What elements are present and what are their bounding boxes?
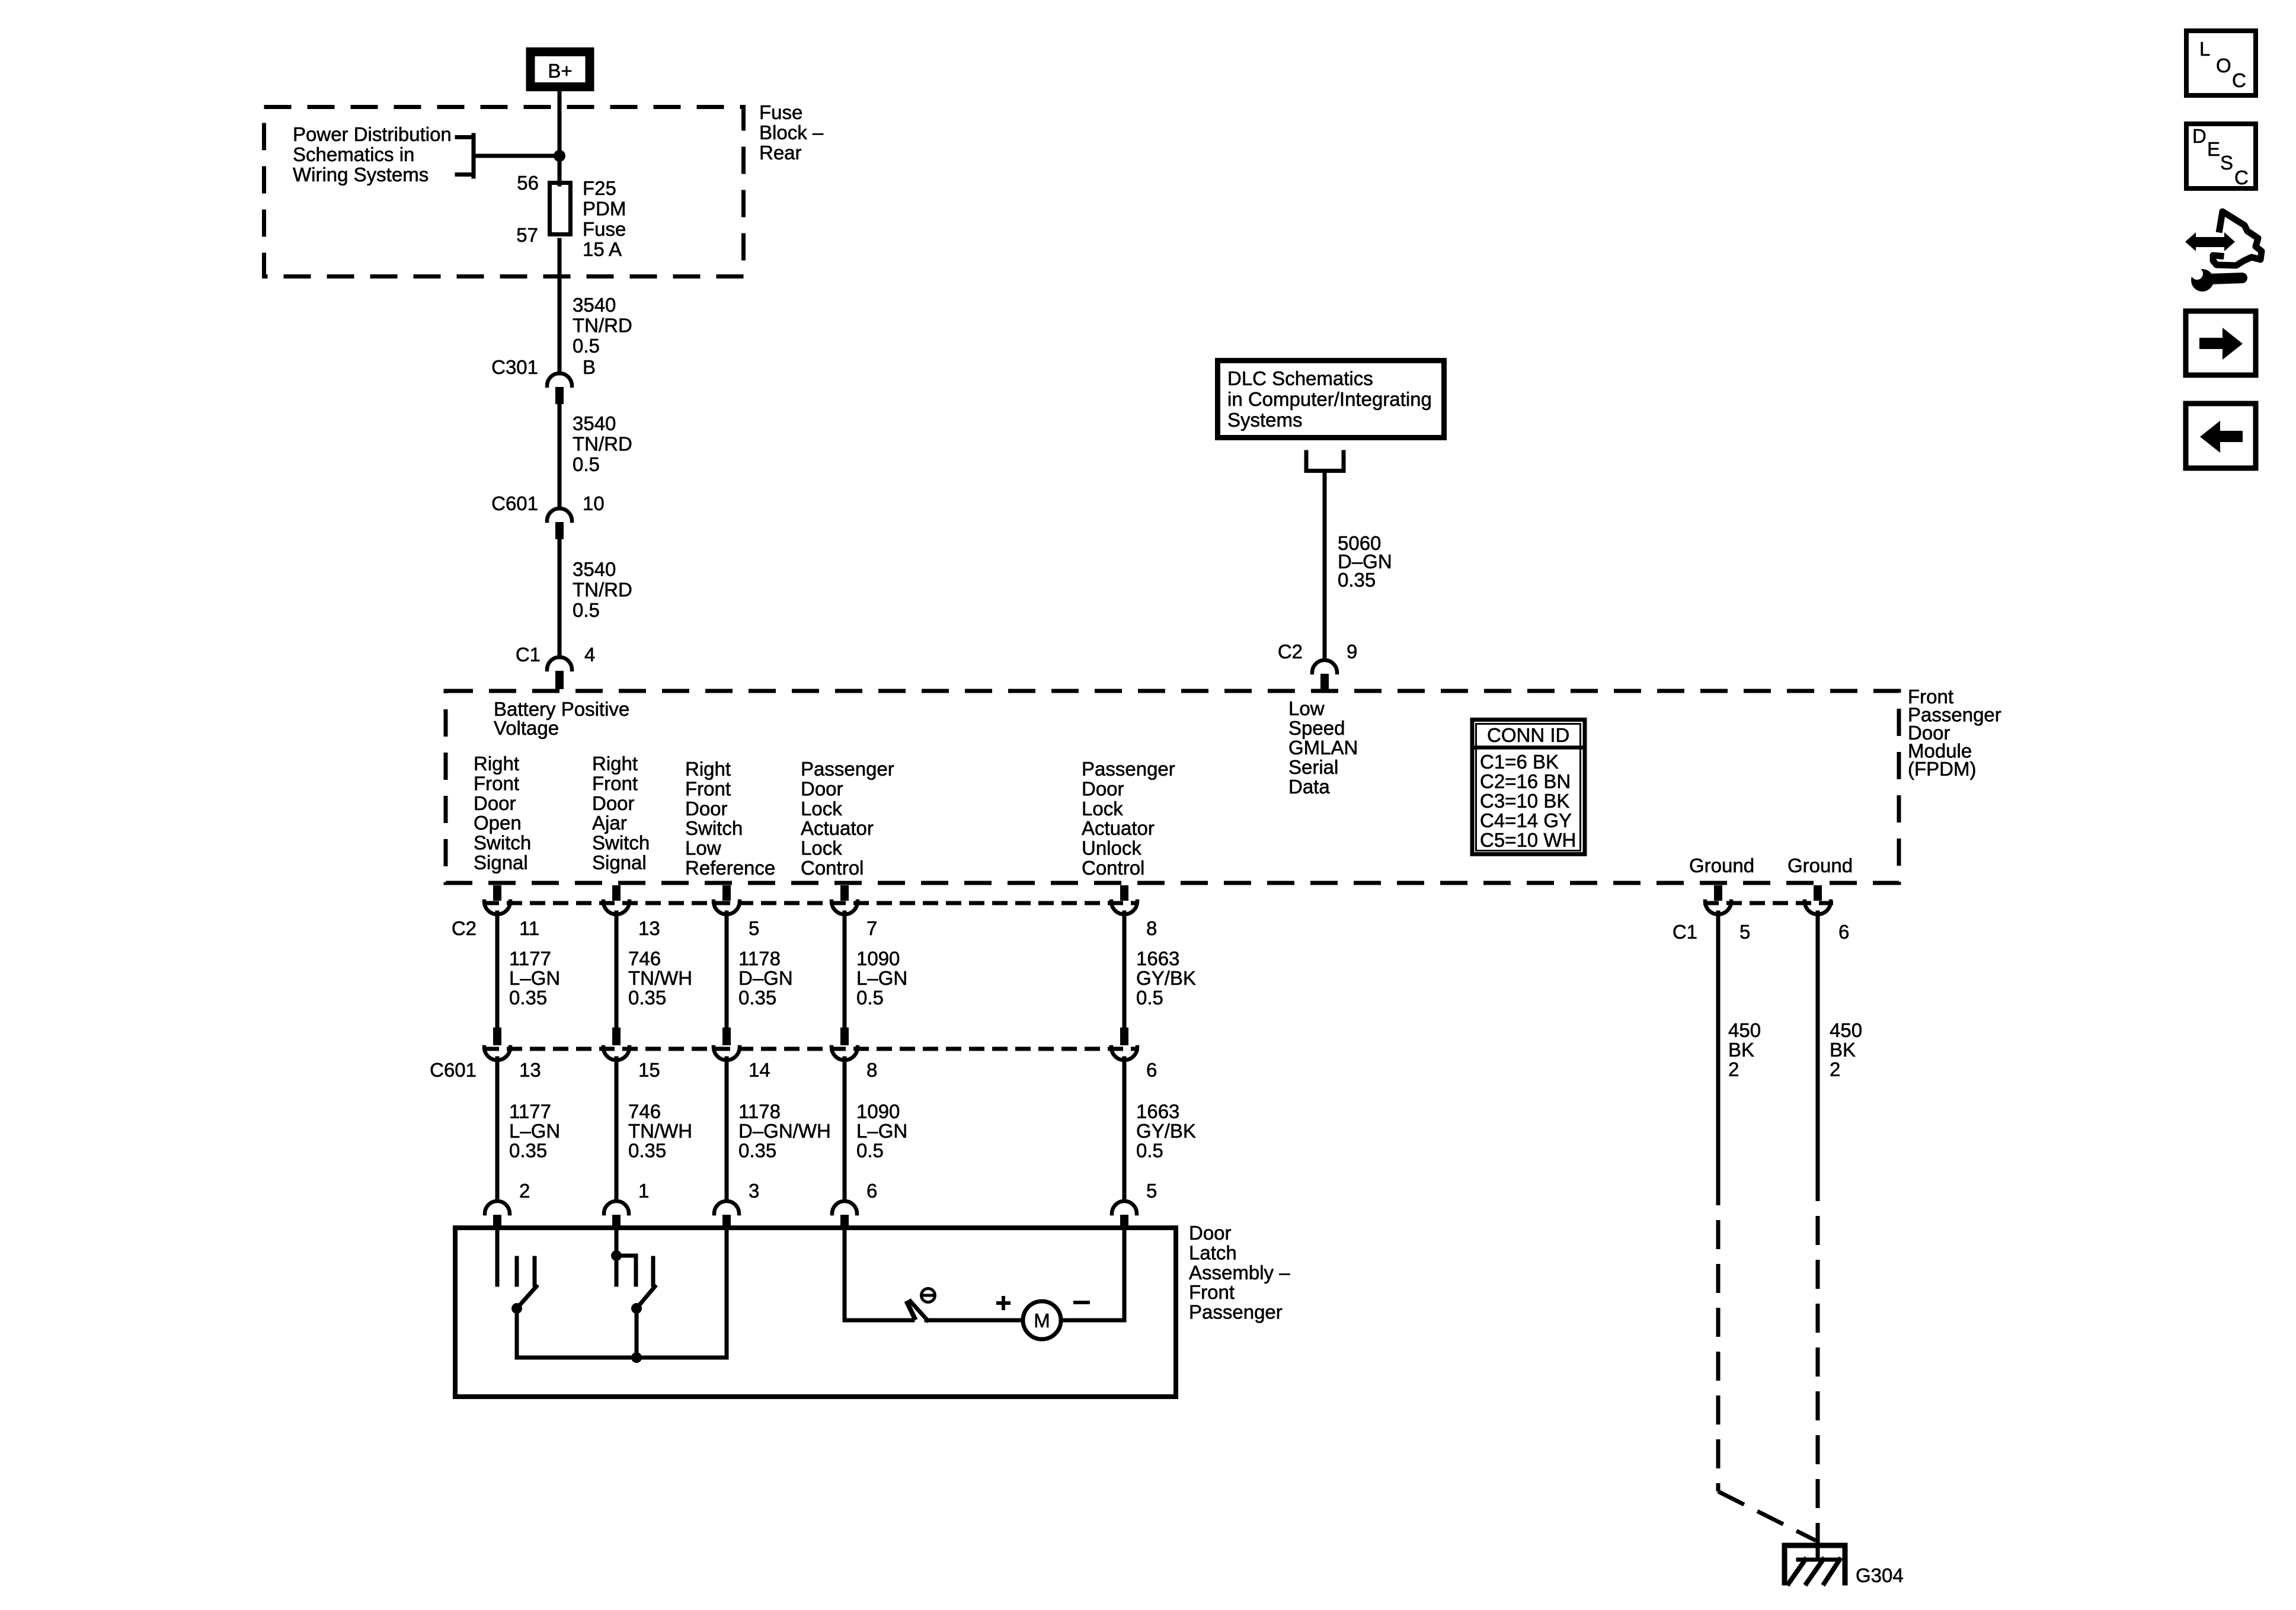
door latch connector pin 5 xyxy=(1112,1201,1137,1227)
wire C601 to C1 xyxy=(558,539,562,657)
svg-text:Control: Control xyxy=(1082,857,1144,879)
door ajar switch contact xyxy=(651,1258,655,1285)
svg-text:6: 6 xyxy=(1146,1059,1157,1081)
pin 56 label xyxy=(517,172,539,194)
svg-text:0.5: 0.5 xyxy=(573,335,600,357)
svg-text:E: E xyxy=(2207,138,2220,160)
svg-text:Door: Door xyxy=(1082,777,1124,799)
svg-text:2: 2 xyxy=(1830,1058,1840,1080)
svg-text:Passenger: Passenger xyxy=(801,758,894,780)
svg-text:5: 5 xyxy=(1739,921,1750,943)
svg-text:TN/WH: TN/WH xyxy=(628,1120,692,1142)
DLC schematics reference box xyxy=(1218,361,1444,438)
svg-text:56: 56 xyxy=(517,172,539,194)
CONN ID table xyxy=(1472,720,1585,854)
connector C601 pin 13 terminal xyxy=(484,1028,510,1060)
label Right Front Door Switch Low Reference xyxy=(685,758,775,879)
wire labels first harness segment xyxy=(509,948,1196,1009)
fuse block rear dashed box xyxy=(264,107,744,277)
svg-text:B+: B+ xyxy=(548,60,572,82)
svg-text:Door: Door xyxy=(1189,1222,1232,1244)
svg-text:746: 746 xyxy=(628,1100,661,1122)
svg-text:TN/RD: TN/RD xyxy=(573,433,632,455)
connector row C2 dotted line xyxy=(484,901,1139,905)
svg-text:D–GN/WH: D–GN/WH xyxy=(738,1120,831,1142)
connector C2 pin 9 into FPDM xyxy=(1312,660,1337,690)
pin 6 label C601 row xyxy=(1146,1059,1157,1081)
svg-text:Fuse: Fuse xyxy=(583,218,626,240)
svg-text:Front: Front xyxy=(474,772,519,794)
door ajar switch blade xyxy=(631,1286,655,1314)
ground wire pin6 to ground symbol xyxy=(1816,1532,1820,1560)
label C601 xyxy=(491,492,538,514)
label C601 row xyxy=(430,1059,477,1081)
connector C601 pin 14 terminal xyxy=(714,1028,740,1060)
svg-text:C: C xyxy=(2234,167,2249,188)
svg-text:Switch: Switch xyxy=(592,832,650,854)
svg-text:C5=10 WH: C5=10 WH xyxy=(1480,829,1576,851)
svg-text:3540: 3540 xyxy=(573,412,616,434)
ground row dotted line xyxy=(1703,901,1833,905)
svg-text:15 A: 15 A xyxy=(583,238,622,260)
svg-text:9: 9 xyxy=(1347,641,1357,662)
svg-text:6: 6 xyxy=(866,1180,877,1202)
svg-text:4: 4 xyxy=(584,644,595,665)
svg-text:TN/RD: TN/RD xyxy=(573,315,632,337)
power distribution reference bracket xyxy=(457,135,474,177)
svg-text:0.5: 0.5 xyxy=(573,453,600,475)
actuator switch blade xyxy=(910,1301,928,1320)
svg-text:C301: C301 xyxy=(491,356,538,378)
connector row C601 dotted line xyxy=(484,1047,1139,1051)
pin 9 label xyxy=(1347,641,1357,662)
label C1 row xyxy=(1673,921,1697,943)
svg-text:1663: 1663 xyxy=(1136,948,1179,969)
svg-text:TN/WH: TN/WH xyxy=(628,967,692,989)
svg-text:Voltage: Voltage xyxy=(494,717,559,739)
svg-text:CONN ID: CONN ID xyxy=(1487,724,1569,746)
svg-text:0.35: 0.35 xyxy=(738,1140,776,1161)
svg-text:C1: C1 xyxy=(1673,921,1697,943)
svg-text:Door: Door xyxy=(801,777,843,799)
plus polarity label xyxy=(998,1298,1009,1308)
svg-text:0.35: 0.35 xyxy=(628,1140,666,1161)
svg-text:0.5: 0.5 xyxy=(856,1140,884,1161)
label C301 xyxy=(491,356,538,378)
ground wire pin5 solid xyxy=(1716,913,1721,1176)
door open switch contacts xyxy=(517,1258,535,1285)
svg-text:Right: Right xyxy=(474,753,519,774)
junction node on B+ feed xyxy=(554,150,565,162)
connector C601 pin 10 xyxy=(547,508,572,539)
connector C301 pin B xyxy=(547,373,572,404)
DLC bracket xyxy=(1306,452,1344,471)
actuator switch contact tick xyxy=(907,1303,914,1318)
svg-text:Speed: Speed xyxy=(1288,717,1345,739)
wires C601 row to door latch xyxy=(497,1058,1124,1201)
door latch connector pin 2 xyxy=(485,1201,510,1227)
svg-text:1: 1 xyxy=(638,1180,649,1202)
door latch assembly box xyxy=(455,1228,1176,1397)
svg-text:BK: BK xyxy=(1728,1039,1754,1061)
svg-text:3: 3 xyxy=(749,1180,759,1202)
low reference wire in latch xyxy=(725,1225,729,1358)
svg-text:Switch: Switch xyxy=(685,817,743,839)
label C1 xyxy=(516,644,541,665)
svg-text:Right: Right xyxy=(685,758,731,780)
fuse F25 PDM 15A xyxy=(550,183,571,235)
label C2 xyxy=(1278,641,1303,662)
circled minus symbol xyxy=(922,1289,935,1302)
ground wire pin5 dashed xyxy=(1716,1176,1721,1491)
svg-text:5: 5 xyxy=(1146,1180,1157,1202)
svg-text:D–GN: D–GN xyxy=(738,967,793,989)
svg-text:Signal: Signal xyxy=(474,852,528,873)
label Ground pin6 xyxy=(1787,854,1853,876)
svg-text:Lock: Lock xyxy=(801,798,842,820)
motor M lock actuator xyxy=(1023,1301,1061,1339)
svg-text:13: 13 xyxy=(638,917,660,939)
back arrow icon xyxy=(2186,404,2256,468)
svg-text:13: 13 xyxy=(519,1059,541,1081)
svg-text:Reference: Reference xyxy=(685,857,775,879)
connector C2 pin 7 terminal xyxy=(832,885,858,914)
connector C601 pin 8 terminal xyxy=(832,1028,858,1060)
pin 1 label door latch xyxy=(638,1180,649,1202)
svg-text:Door: Door xyxy=(474,792,516,814)
pin 57 label xyxy=(516,224,538,246)
front passenger door module FPDM dashed box xyxy=(446,691,1899,883)
svg-text:1177: 1177 xyxy=(509,948,551,969)
pin 3 label door latch xyxy=(749,1180,759,1202)
svg-text:Control: Control xyxy=(801,857,864,879)
svg-text:0.5: 0.5 xyxy=(573,599,600,621)
svg-text:S: S xyxy=(2220,152,2233,174)
door open switch output wire xyxy=(515,1308,519,1358)
svg-text:L–GN: L–GN xyxy=(856,1120,907,1142)
svg-text:0.35: 0.35 xyxy=(1338,569,1376,591)
svg-text:1177: 1177 xyxy=(509,1100,551,1122)
svg-text:Ajar: Ajar xyxy=(592,812,627,834)
svg-text:2: 2 xyxy=(519,1180,530,1202)
svg-text:DLC Schematics: DLC Schematics xyxy=(1227,367,1373,389)
svg-text:Low: Low xyxy=(1288,697,1325,719)
svg-text:Data: Data xyxy=(1288,776,1330,798)
svg-text:L–GN: L–GN xyxy=(856,967,907,989)
svg-text:8: 8 xyxy=(1146,917,1157,939)
pin 6 label ground xyxy=(1838,921,1849,943)
pin 5 label ground xyxy=(1739,921,1750,943)
door ajar switch input wire xyxy=(611,1225,622,1261)
door latch connector pin 1 xyxy=(604,1201,629,1227)
svg-text:1090: 1090 xyxy=(856,948,900,969)
pin 5 label door latch xyxy=(1146,1180,1157,1202)
svg-text:0.5: 0.5 xyxy=(1136,987,1163,1009)
svg-text:L–GN: L–GN xyxy=(509,1120,560,1142)
pin 10 label xyxy=(583,492,605,514)
svg-text:15: 15 xyxy=(638,1059,660,1081)
svg-text:Actuator: Actuator xyxy=(801,817,874,839)
svg-text:Front: Front xyxy=(685,777,731,799)
svg-text:C4=14 GY: C4=14 GY xyxy=(1480,809,1572,831)
svg-text:GY/BK: GY/BK xyxy=(1136,967,1196,989)
svg-text:Lock: Lock xyxy=(1082,798,1123,820)
pin 2 label door latch xyxy=(519,1180,530,1202)
wire B+ to fuse F25 xyxy=(558,91,562,184)
label Fuse Block - Rear xyxy=(759,101,824,164)
door ajar switch output wire xyxy=(635,1308,639,1358)
svg-text:C1=6 BK: C1=6 BK xyxy=(1480,751,1559,773)
connector C2 pin 5 terminal xyxy=(714,885,740,914)
svg-text:450: 450 xyxy=(1728,1019,1761,1041)
pin 8 label C601 row xyxy=(866,1059,877,1081)
wire switch to motor xyxy=(926,1318,1023,1323)
svg-text:Wiring Systems: Wiring Systems xyxy=(293,164,428,185)
svg-text:7: 7 xyxy=(866,917,877,939)
label G304 xyxy=(1856,1564,1904,1586)
svg-text:1178: 1178 xyxy=(738,948,781,969)
svg-text:C3=10 BK: C3=10 BK xyxy=(1480,790,1569,812)
pin 4 label xyxy=(584,644,595,665)
wire label 3540 TN/RD 0.5 second xyxy=(573,412,632,475)
svg-text:10: 10 xyxy=(583,492,605,514)
svg-text:C601: C601 xyxy=(430,1059,477,1081)
svg-text:1663: 1663 xyxy=(1136,1100,1179,1122)
wire label 450 BK 2 right xyxy=(1830,1019,1862,1080)
pin 5 label xyxy=(749,917,759,939)
svg-text:Low: Low xyxy=(685,837,721,859)
svg-text:in Computer/Integrating: in Computer/Integrating xyxy=(1227,388,1432,410)
svg-text:GMLAN: GMLAN xyxy=(1288,737,1358,758)
svg-text:Actuator: Actuator xyxy=(1082,817,1155,839)
connector C1 pin 6 terminal xyxy=(1805,885,1831,914)
pin B label xyxy=(583,356,596,378)
svg-text:3540: 3540 xyxy=(573,558,616,580)
wire label 450 BK 2 left xyxy=(1728,1019,1761,1080)
pin 14 label C601 row xyxy=(749,1059,770,1081)
svg-text:6: 6 xyxy=(1838,921,1849,943)
svg-text:Front: Front xyxy=(1189,1281,1235,1303)
svg-text:C2=16 BN: C2=16 BN xyxy=(1480,770,1571,792)
svg-text:C1: C1 xyxy=(516,644,541,665)
wires C2 row to C601 row xyxy=(497,913,1124,1029)
svg-text:F25: F25 xyxy=(583,177,616,199)
svg-text:Block –: Block – xyxy=(759,121,824,143)
door latch connector pin 3 xyxy=(714,1201,739,1227)
pin 8 label xyxy=(1146,917,1157,939)
DESC icon box xyxy=(2186,124,2256,188)
B+ battery positive voltage symbol xyxy=(530,52,590,87)
connector C2 pin 13 terminal xyxy=(603,885,629,914)
label Ground pin5 xyxy=(1689,854,1754,876)
connector C1 pin 4 into FPDM xyxy=(547,657,572,689)
svg-text:Schematics in: Schematics in xyxy=(293,143,414,165)
svg-text:0.35: 0.35 xyxy=(738,987,776,1009)
svg-text:C2: C2 xyxy=(452,917,477,939)
label C2 row xyxy=(452,917,477,939)
svg-text:TN/RD: TN/RD xyxy=(573,579,632,601)
svg-text:Passenger: Passenger xyxy=(1082,758,1175,780)
wire C301 to C601 xyxy=(558,404,562,508)
pin 13 label xyxy=(638,917,660,939)
svg-text:Open: Open xyxy=(474,812,522,834)
diagnostic car wrench icon xyxy=(2185,212,2262,292)
connector C1 pin 5 terminal xyxy=(1705,885,1731,914)
svg-text:Fuse: Fuse xyxy=(759,101,802,123)
svg-text:B: B xyxy=(583,356,596,378)
svg-text:Power Distribution: Power Distribution xyxy=(293,123,452,145)
pin 11 label xyxy=(519,917,539,939)
label F25 PDM Fuse 15 A xyxy=(583,177,626,260)
svg-text:Lock: Lock xyxy=(801,837,842,859)
LOC icon box xyxy=(2186,31,2256,95)
svg-text:GY/BK: GY/BK xyxy=(1136,1120,1196,1142)
wire label 3540 TN/RD 0.5 third xyxy=(573,558,632,621)
wire fuse to connector C301 xyxy=(558,240,562,373)
label Passenger Door Lock Actuator Unlock Control xyxy=(1082,758,1175,879)
pin 15 label C601 row xyxy=(638,1059,660,1081)
svg-text:Assembly –: Assembly – xyxy=(1189,1262,1290,1283)
label Door Latch Assembly Front Passenger xyxy=(1189,1222,1290,1323)
label Right Front Door Open Switch Signal xyxy=(474,753,531,873)
ground wire pin6 solid xyxy=(1816,913,1820,1172)
svg-text:1178: 1178 xyxy=(738,1100,781,1122)
svg-text:3540: 3540 xyxy=(573,294,616,316)
svg-text:D: D xyxy=(2192,125,2207,147)
unlock control wire in latch xyxy=(1123,1225,1127,1320)
svg-text:Front: Front xyxy=(592,772,638,794)
svg-text:Systems: Systems xyxy=(1227,409,1303,431)
connector C601 pin 15 terminal xyxy=(603,1028,629,1060)
svg-text:L–GN: L–GN xyxy=(509,967,560,989)
svg-text:Ground: Ground xyxy=(1689,854,1754,876)
svg-text:Door: Door xyxy=(685,798,728,820)
label Power Distribution Schematics in Wiring Systems xyxy=(293,123,452,185)
pin 7 label xyxy=(866,917,877,939)
lock actuator feed wire xyxy=(845,1225,913,1320)
svg-text:C: C xyxy=(2232,69,2246,91)
svg-text:8: 8 xyxy=(866,1059,877,1081)
svg-text:57: 57 xyxy=(516,224,538,246)
label Passenger Door Lock Actuator Lock Control xyxy=(801,758,894,879)
svg-text:450: 450 xyxy=(1830,1019,1862,1041)
label Low Speed GMLAN Serial Data xyxy=(1288,697,1358,798)
pin 13 label C601 row xyxy=(519,1059,541,1081)
wire motor to unlock control xyxy=(1061,1318,1124,1323)
svg-text:BK: BK xyxy=(1830,1039,1856,1061)
svg-text:G304: G304 xyxy=(1856,1564,1904,1586)
svg-text:Signal: Signal xyxy=(592,852,647,873)
svg-text:Ground: Ground xyxy=(1787,854,1853,876)
wire DLC to connector C2 xyxy=(1323,472,1327,660)
svg-text:1090: 1090 xyxy=(856,1100,900,1122)
pin 6 label door latch xyxy=(866,1180,877,1202)
svg-text:Door: Door xyxy=(592,792,635,814)
connector C2 pin 11 terminal xyxy=(484,885,510,914)
door latch connector pin 6 xyxy=(832,1201,857,1227)
svg-text:5: 5 xyxy=(749,917,759,939)
svg-text:2: 2 xyxy=(1728,1058,1739,1080)
door open switch input wire xyxy=(495,1225,500,1285)
wire bracket to node xyxy=(474,154,559,158)
label Right Front Door Ajar Switch Signal xyxy=(592,753,650,873)
connector C601 pin 6 terminal xyxy=(1111,1028,1137,1060)
wire labels second harness segment xyxy=(509,1100,1196,1161)
forward arrow icon xyxy=(2186,311,2256,375)
ground G304 symbol xyxy=(1785,1545,1845,1583)
svg-text:14: 14 xyxy=(749,1059,770,1081)
label Front Passenger Door Module FPDM xyxy=(1908,686,2001,780)
svg-text:746: 746 xyxy=(628,948,661,969)
svg-text:Unlock: Unlock xyxy=(1082,837,1141,859)
svg-text:L: L xyxy=(2199,38,2210,60)
svg-text:Rear: Rear xyxy=(759,142,802,164)
svg-text:Right: Right xyxy=(592,753,638,774)
svg-text:0.35: 0.35 xyxy=(628,987,666,1009)
switch low reference bus xyxy=(517,1352,727,1363)
svg-text:11: 11 xyxy=(519,917,539,939)
svg-text:M: M xyxy=(1034,1310,1050,1331)
svg-text:C601: C601 xyxy=(491,492,538,514)
svg-text:O: O xyxy=(2216,55,2231,76)
minus polarity label xyxy=(1075,1301,1088,1304)
wire label 3540 TN/RD 0.5 xyxy=(573,294,632,357)
ground wire pin5 diagonal to G304 xyxy=(1718,1491,1816,1541)
door ajar switch hook xyxy=(616,1256,636,1285)
svg-text:PDM: PDM xyxy=(583,197,626,219)
svg-text:Switch: Switch xyxy=(474,832,531,854)
svg-text:Serial: Serial xyxy=(1288,756,1338,778)
svg-text:Passenger: Passenger xyxy=(1189,1301,1283,1323)
door open switch blade xyxy=(511,1286,536,1314)
svg-text:Latch: Latch xyxy=(1189,1241,1237,1263)
connector C2 pin 8 terminal xyxy=(1111,885,1137,914)
label Battery Positive Voltage xyxy=(494,698,629,739)
svg-text:0.5: 0.5 xyxy=(856,987,884,1009)
wire label 5060 D-GN 0.35 xyxy=(1338,532,1392,591)
svg-text:0.5: 0.5 xyxy=(1136,1140,1163,1161)
svg-text:C2: C2 xyxy=(1278,641,1303,662)
svg-text:(FPDM): (FPDM) xyxy=(1908,758,1976,780)
svg-text:0.35: 0.35 xyxy=(509,987,547,1009)
svg-text:0.35: 0.35 xyxy=(509,1140,547,1161)
ground wire pin6 dashed xyxy=(1816,1172,1820,1532)
